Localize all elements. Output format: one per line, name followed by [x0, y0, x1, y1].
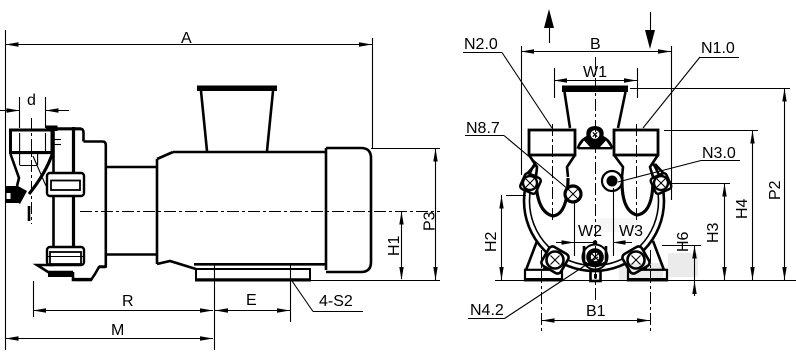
dimension W1 — [554, 64, 638, 98]
svg-text:N2.0: N2.0 — [464, 36, 498, 53]
baseline — [495, 280, 796, 282]
central funnel port — [562, 86, 628, 129]
left port centerline — [552, 124, 554, 222]
pump vertical centerline — [595, 57, 597, 300]
svg-text:N8.7: N8.7 — [466, 120, 500, 137]
lower-left bolt — [540, 245, 570, 275]
svg-text:W3: W3 — [619, 223, 643, 240]
drain plug — [591, 271, 601, 281]
motor body — [173, 152, 326, 264]
pump casing circles — [524, 124, 664, 271]
label N4.2 — [468, 257, 598, 319]
flow arrow down (suction) — [645, 12, 655, 49]
eye bolt — [577, 126, 614, 149]
suction port flange (side view) — [10, 126, 58, 166]
right port boss — [622, 177, 653, 215]
svg-text:N4.2: N4.2 — [470, 302, 504, 319]
svg-text:E: E — [246, 292, 257, 309]
pump casing (side) — [37, 127, 106, 280]
right ear lug — [650, 172, 672, 194]
svg-text:B1: B1 — [586, 303, 606, 320]
motor end cap — [326, 148, 371, 272]
flow arrow up (discharge) — [544, 9, 554, 43]
dimension W2 W3 — [556, 188, 643, 256]
casing shoulder right — [655, 164, 666, 176]
dimension P2 — [630, 88, 790, 280]
left port boss — [536, 177, 568, 216]
right port centerline — [636, 124, 638, 222]
label N2.0 — [463, 36, 552, 128]
svg-text:B: B — [590, 36, 601, 53]
upper clamp tab — [47, 173, 84, 196]
foot slot line left — [214, 264, 216, 350]
svg-text:M: M — [111, 322, 124, 339]
right foot centerline — [650, 250, 652, 332]
pump snout funnel — [11, 152, 54, 194]
dimension H1 — [386, 211, 404, 280]
label N8.7 — [465, 120, 569, 190]
svg-text:P3: P3 — [422, 211, 439, 231]
label 4-S2 — [292, 281, 363, 312]
left foot centerline — [541, 250, 543, 332]
casing shoulder left — [525, 164, 536, 176]
drain stub — [5, 186, 29, 221]
svg-text:A: A — [181, 30, 192, 47]
left foot — [524, 241, 563, 280]
motor stator face — [157, 152, 196, 269]
svg-text:H3: H3 — [705, 222, 722, 243]
dimension B — [521, 36, 672, 200]
svg-text:R: R — [122, 293, 134, 310]
dimension H6 — [662, 231, 701, 296]
port centerline — [31, 118, 33, 224]
dimension H3 — [668, 183, 730, 280]
left ear lug — [519, 172, 541, 194]
label N1.0 — [643, 40, 739, 128]
motor foot slab — [196, 269, 310, 281]
dimension A — [6, 30, 373, 350]
left port flange N2.0 — [529, 130, 575, 216]
lower-right bolt — [621, 245, 651, 275]
dimension H4 — [664, 130, 758, 280]
svg-text:H6: H6 — [675, 231, 692, 252]
svg-text:H1: H1 — [386, 235, 403, 256]
motor bracket — [84, 142, 106, 267]
right foot — [627, 241, 668, 280]
main centerline — [80, 211, 440, 213]
svg-text:P2: P2 — [767, 180, 784, 200]
svg-text:d: d — [27, 92, 36, 109]
dimension R — [33, 281, 213, 317]
svg-text:N3.0: N3.0 — [702, 145, 736, 162]
dimension E — [215, 292, 290, 313]
dimension B1 — [541, 303, 650, 323]
dimension M — [6, 322, 214, 341]
lower clamp tab — [47, 247, 84, 265]
svg-text:N1.0: N1.0 — [701, 40, 735, 57]
label N3.0 — [618, 145, 740, 182]
bottom center bolt N4.2 — [583, 245, 608, 270]
right port flange N1.0 — [614, 130, 658, 215]
watermark ghost — [598, 218, 698, 280]
svg-text:H2: H2 — [483, 231, 500, 252]
svg-text:W2: W2 — [578, 223, 602, 240]
adapter section — [106, 167, 158, 255]
dimension H2 — [483, 195, 526, 280]
bolt N8.7 — [565, 186, 581, 202]
motor top funnel — [197, 86, 277, 152]
foot slot line right — [290, 264, 292, 322]
bolt N3.0 — [602, 171, 622, 191]
dimension P3 — [310, 149, 440, 281]
dimension d — [0, 92, 69, 128]
svg-text:H4: H4 — [734, 198, 751, 219]
svg-text:4-S2: 4-S2 — [319, 293, 353, 310]
